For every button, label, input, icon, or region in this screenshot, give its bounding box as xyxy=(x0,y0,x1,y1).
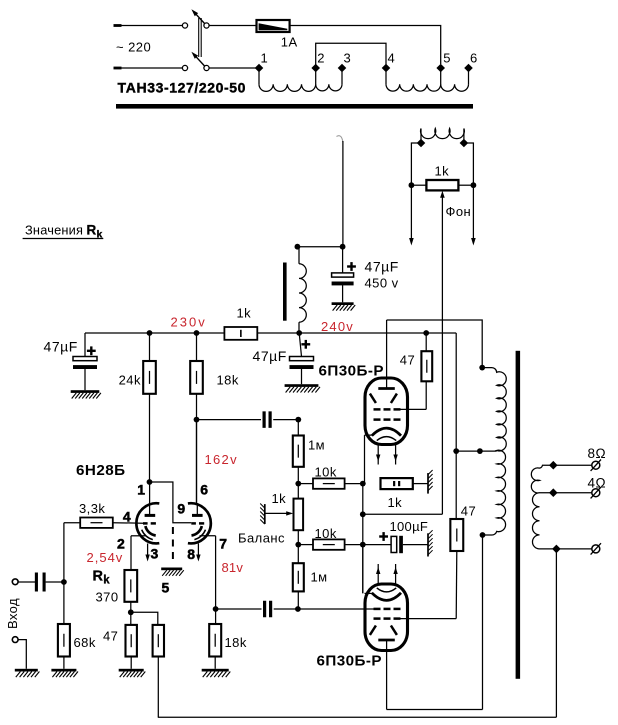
wire bridge tap2-tap4 xyxy=(316,43,386,68)
label 24k xyxy=(119,373,141,388)
svg-text:1: 1 xyxy=(137,481,145,497)
tube V2 anode xyxy=(378,320,395,389)
svg-text:8: 8 xyxy=(187,546,195,562)
tube V2 heater xyxy=(377,437,396,441)
node heater pot right xyxy=(471,182,477,188)
resistor 1k B+ dropper xyxy=(224,327,257,340)
resistor 47 screen upper xyxy=(400,333,432,381)
pin label 6 xyxy=(200,481,208,497)
label 47 cathode xyxy=(103,629,118,644)
wire link plate V1a to grid V1b xyxy=(150,482,192,523)
potentiometer balance 1k xyxy=(294,484,304,545)
node heater pot left xyxy=(409,182,415,188)
resistor 1M upper xyxy=(293,420,304,484)
wire anode V2 to OT xyxy=(387,320,483,368)
label 47uF input xyxy=(44,339,78,355)
tap 3 xyxy=(338,51,351,73)
label Баланс xyxy=(238,531,285,546)
resistor 3,3k grid stopper xyxy=(80,518,113,528)
label 230v xyxy=(171,315,207,330)
svg-text:R: R xyxy=(93,569,104,585)
svg-text:5: 5 xyxy=(443,51,451,66)
triode V1b cathode xyxy=(192,526,202,535)
node choke bottom xyxy=(296,330,302,336)
resistor 47 cathode bypass xyxy=(126,612,137,669)
label 1M lower xyxy=(311,570,328,585)
svg-text:6: 6 xyxy=(470,51,478,66)
wire hum to cathodes xyxy=(363,484,443,593)
svg-text:1A: 1A xyxy=(281,34,298,49)
wire Rk node right xyxy=(131,612,158,625)
label + cap input xyxy=(87,346,96,355)
svg-text:6П30Б-Р: 6П30Б-Р xyxy=(317,652,383,669)
pin label 3 xyxy=(151,545,159,561)
svg-text:2: 2 xyxy=(117,535,125,551)
label Фон xyxy=(446,204,472,219)
wire cathode V3 xyxy=(363,545,372,594)
heater winding 6.3v xyxy=(421,129,465,144)
tube V1 6Н28Б label xyxy=(76,462,125,479)
heater pin 3 arrow xyxy=(145,544,149,562)
pin label 8 xyxy=(187,546,195,562)
triode V1a anode xyxy=(145,482,156,515)
label 47uF 450v xyxy=(365,259,399,291)
ground input xyxy=(15,669,40,677)
svg-text:5: 5 xyxy=(162,579,170,595)
wire heater left lead xyxy=(411,143,421,185)
resistor 1k screen upper xyxy=(381,478,429,489)
tap 2 xyxy=(311,51,324,73)
label Вход xyxy=(5,598,20,629)
node cathode lower xyxy=(360,542,366,548)
heater pin 8 arrow xyxy=(196,544,200,562)
svg-text:6: 6 xyxy=(200,481,208,497)
wire input gnd xyxy=(18,640,26,669)
wire tap 4ohm xyxy=(540,492,596,494)
node choke top xyxy=(295,244,301,250)
triode V1a heater arc xyxy=(142,530,153,540)
wire choke top to cap450 xyxy=(297,246,342,248)
wire mains line L upper xyxy=(114,24,184,27)
resistor 1M lower xyxy=(293,545,304,609)
svg-text:68k: 68k xyxy=(74,635,96,650)
tube V2 screen grid xyxy=(374,408,401,411)
choke L1 core xyxy=(283,263,287,321)
svg-text:47: 47 xyxy=(461,504,476,519)
tap 1 xyxy=(255,51,268,73)
svg-text:47: 47 xyxy=(103,629,118,644)
ground 68k xyxy=(51,669,78,677)
svg-text:240v: 240v xyxy=(321,319,354,334)
svg-text:24k: 24k xyxy=(119,373,141,388)
triode V1a envelope xyxy=(136,503,159,543)
svg-text:1k: 1k xyxy=(272,491,287,506)
wire anode V3 to OT xyxy=(387,709,483,711)
resistor 10k lower xyxy=(298,539,363,549)
tube V2 envelope xyxy=(365,378,408,445)
pin label 2 xyxy=(117,535,125,551)
svg-text:47µF: 47µF xyxy=(253,348,287,364)
pin label 5 xyxy=(162,579,170,595)
svg-text:18k: 18k xyxy=(225,635,247,650)
label ~220 xyxy=(116,39,151,54)
svg-text:6Н28Б: 6Н28Б xyxy=(76,462,125,479)
svg-text:k: k xyxy=(103,575,110,587)
terminal 4ohm xyxy=(591,487,601,498)
pin label 1 xyxy=(137,481,145,497)
svg-text:1k: 1k xyxy=(435,164,450,179)
chassis 1k upper xyxy=(428,470,433,494)
primary winding 4-5 xyxy=(386,68,441,91)
tube V3 heater xyxy=(377,588,396,592)
potentiometer Фон 1k xyxy=(426,180,458,514)
tap 8ohm xyxy=(549,446,606,470)
junction heater right xyxy=(460,139,469,148)
node cap450 top xyxy=(340,244,346,250)
svg-text:4: 4 xyxy=(388,51,396,66)
rail B+ 240v xyxy=(257,332,456,334)
svg-text:Значения: Значения xyxy=(25,223,83,238)
pin label 7 xyxy=(219,535,227,551)
tube V3 6П30Б-Р label xyxy=(317,652,383,669)
terminal 8ohm xyxy=(591,460,601,471)
capacitor 47uF input filter xyxy=(73,333,97,390)
tap common xyxy=(552,545,561,554)
label 47uF 240v xyxy=(253,348,287,364)
triode V1a cathode xyxy=(145,526,155,535)
svg-text:7: 7 xyxy=(219,535,227,551)
resistor 68k grid leak xyxy=(58,582,70,669)
primary winding 2-3 xyxy=(316,68,342,91)
wire switch to tap 1 xyxy=(209,67,259,69)
svg-text:Баланс: Баланс xyxy=(238,531,285,546)
ground cap 240v xyxy=(285,384,320,392)
label + cap450 xyxy=(347,262,356,271)
resistor 24k xyxy=(143,333,156,482)
svg-text:450 v: 450 v xyxy=(365,276,399,291)
label 1A xyxy=(281,34,298,49)
ground pin 5 xyxy=(161,568,184,576)
label Значения Rk xyxy=(23,223,104,241)
pin label 9 xyxy=(177,501,185,517)
wire pot ends xyxy=(411,184,473,186)
svg-text:1k: 1k xyxy=(388,495,403,510)
fuse F1 xyxy=(257,20,290,32)
wire screen V2 to 47ohm xyxy=(401,381,427,409)
wire screen V3 xyxy=(401,618,457,620)
wire OT primary bottom xyxy=(482,535,484,710)
label 3,3k xyxy=(79,501,105,516)
label 18k cathode xyxy=(225,635,247,650)
triode V1b heater arc xyxy=(194,530,205,540)
resistor 18k plate xyxy=(190,333,203,503)
svg-text:10k: 10k xyxy=(315,526,337,541)
tap 5 xyxy=(436,51,450,73)
wire input node up xyxy=(64,523,80,582)
wire cathode V1b xyxy=(200,536,216,609)
primary winding 5-6 xyxy=(441,68,469,91)
svg-text:6П30Б-Р: 6П30Б-Р xyxy=(319,363,385,380)
svg-text:ТАН33-127/220-50: ТАН33-127/220-50 xyxy=(118,80,247,96)
svg-text:3: 3 xyxy=(151,545,159,561)
svg-text:~ 220: ~ 220 xyxy=(116,39,151,54)
choke L1 winding xyxy=(299,248,306,333)
label 18k plate xyxy=(217,373,239,388)
tube V2 cathode xyxy=(372,428,401,436)
label 10k lower xyxy=(315,526,337,541)
tube V3 envelope xyxy=(365,584,408,651)
tube V2 6П30Б-Р label xyxy=(319,363,385,380)
label 162v xyxy=(205,452,238,467)
node bias upper xyxy=(295,481,301,487)
svg-text:162v: 162v xyxy=(205,452,238,467)
tap 6 xyxy=(464,51,477,73)
svg-text:Фон: Фон xyxy=(446,204,472,219)
svg-text:10k: 10k xyxy=(315,465,337,480)
node OT primary bottom xyxy=(480,532,486,538)
tube V2 beam plates xyxy=(370,394,397,403)
label 81v xyxy=(222,560,244,575)
pin 5 shield dashed xyxy=(172,527,174,562)
OT secondary winding xyxy=(531,465,595,549)
ground 47 cathode xyxy=(119,669,146,677)
node plate V1b tap xyxy=(194,417,200,423)
resistor to feedback rail xyxy=(153,625,164,717)
node Rk bottom xyxy=(128,609,134,615)
tube V3 heater leads xyxy=(376,564,398,584)
svg-text:81v: 81v xyxy=(222,560,244,575)
label 1k screen upper xyxy=(388,495,403,510)
switch S1 mechanical link xyxy=(199,18,202,57)
label 1k dropper xyxy=(237,306,252,321)
resistor Rk 370 xyxy=(124,570,137,612)
wire feedback rail xyxy=(158,716,557,718)
svg-text:8Ω: 8Ω xyxy=(588,446,607,461)
label + 100uF xyxy=(379,532,388,541)
svg-text:4: 4 xyxy=(123,508,131,524)
balance wiper xyxy=(260,504,293,525)
node 18k top xyxy=(213,606,219,612)
label 1k hum pot xyxy=(435,164,450,179)
tap 4 xyxy=(382,51,395,73)
svg-text:9: 9 xyxy=(177,501,185,517)
capacitor coupling upper xyxy=(197,411,299,428)
terminal input hot xyxy=(12,579,18,585)
label 240v xyxy=(321,319,354,334)
wire grid V1a xyxy=(113,522,143,525)
terminal common xyxy=(591,543,601,554)
wire B+ to OT xyxy=(455,333,457,451)
capacitor coupling lower xyxy=(216,601,374,618)
tube V2 heater leads xyxy=(376,445,398,465)
wire pot left to arrow xyxy=(409,185,414,245)
label 10k upper xyxy=(315,465,337,480)
ground 18k xyxy=(202,669,231,677)
label Rk xyxy=(93,569,111,587)
HV secondary winding lead xyxy=(337,136,343,247)
svg-text:R: R xyxy=(87,223,97,238)
svg-text:3,3k: 3,3k xyxy=(79,501,105,516)
tube V2 control grid xyxy=(374,418,401,421)
ground cap450 xyxy=(332,302,356,310)
wire plate V1b xyxy=(196,420,198,503)
wire cathode V2 xyxy=(365,435,372,484)
triode V1b grid xyxy=(191,522,204,525)
node cathode upper xyxy=(360,481,366,487)
label 1k balance xyxy=(272,491,287,506)
label + cap 240v xyxy=(301,340,310,349)
node OT primary top xyxy=(479,365,485,371)
svg-text:2,54v: 2,54v xyxy=(87,550,124,565)
resistor 47 screen lower xyxy=(450,451,463,618)
node hum junction xyxy=(360,511,366,517)
triode V1a grid xyxy=(143,522,156,525)
tube V3 beam plates xyxy=(370,626,397,635)
node B+ center tap xyxy=(453,448,459,454)
OT core xyxy=(516,351,521,679)
svg-text:100µF: 100µF xyxy=(390,519,429,534)
svg-text:1м: 1м xyxy=(308,438,325,453)
pin label 4 xyxy=(123,508,131,524)
svg-text:230v: 230v xyxy=(171,315,207,330)
switch S1 pole A xyxy=(182,9,209,28)
terminal input gnd xyxy=(12,637,18,643)
svg-text:18k: 18k xyxy=(217,373,239,388)
wire pot right to arrow xyxy=(471,185,476,245)
wire mains line N lower xyxy=(114,67,184,70)
junction heater left xyxy=(417,139,426,148)
node grid upper xyxy=(295,417,301,423)
node bias lower xyxy=(295,542,301,548)
rail B+ 230v left xyxy=(85,332,224,334)
svg-text:2: 2 xyxy=(317,51,325,66)
svg-text:47µF: 47µF xyxy=(365,259,399,275)
label 68k xyxy=(74,635,96,650)
triode V1b anode xyxy=(192,503,203,515)
capacitor input coupling xyxy=(18,573,64,592)
node rail 18k xyxy=(194,330,200,336)
label 2,54v xyxy=(87,550,124,565)
capacitor 47uF 450v xyxy=(332,247,354,303)
tube V3 anode xyxy=(378,640,395,710)
svg-text:1: 1 xyxy=(261,51,269,66)
svg-text:370: 370 xyxy=(96,590,119,605)
OT primary winding xyxy=(482,368,506,535)
svg-text:47µF: 47µF xyxy=(44,339,78,355)
svg-text:47: 47 xyxy=(400,353,415,368)
wire heater right lead xyxy=(464,143,474,185)
label 1M upper xyxy=(308,438,325,453)
node OT center tap xyxy=(477,448,483,454)
tube V3 cathode xyxy=(372,593,401,601)
wire common down xyxy=(555,549,557,717)
tube V3 control grid xyxy=(374,608,401,611)
node input grid xyxy=(61,579,67,585)
switch S1 pole B xyxy=(182,52,209,71)
node grid lower xyxy=(295,606,301,612)
label 100uF xyxy=(390,519,429,534)
wire cathode V1a xyxy=(131,536,147,570)
resistor 18k cathode load xyxy=(209,609,221,669)
svg-text:3: 3 xyxy=(344,51,352,66)
svg-text:Вход: Вход xyxy=(5,598,20,629)
node rail 24k xyxy=(147,330,153,336)
label 370 xyxy=(96,590,119,605)
wire center tap xyxy=(456,450,497,452)
transformer T1 core xyxy=(116,104,473,109)
capacitor 47uF 240v xyxy=(290,333,314,384)
svg-text:1м: 1м xyxy=(311,570,328,585)
wire switch to fuse xyxy=(209,25,256,27)
ground cap input xyxy=(71,390,101,398)
triode V1b envelope xyxy=(188,503,211,543)
primary winding 1-2 xyxy=(259,68,316,91)
tap 4ohm xyxy=(549,476,606,498)
chassis 100uF xyxy=(428,530,433,556)
capacitor 100uF cathode xyxy=(363,536,428,553)
resistor 10k upper xyxy=(298,478,363,488)
label 47 screen lower xyxy=(461,504,476,519)
label ТАН33-127/220-50 xyxy=(118,80,247,96)
node plate V1a xyxy=(147,479,153,485)
tube V3 screen grid xyxy=(374,617,401,620)
svg-text:1k: 1k xyxy=(237,306,252,321)
node rail 47ohm xyxy=(423,330,429,336)
wire fuse to tap 5 xyxy=(290,26,441,65)
